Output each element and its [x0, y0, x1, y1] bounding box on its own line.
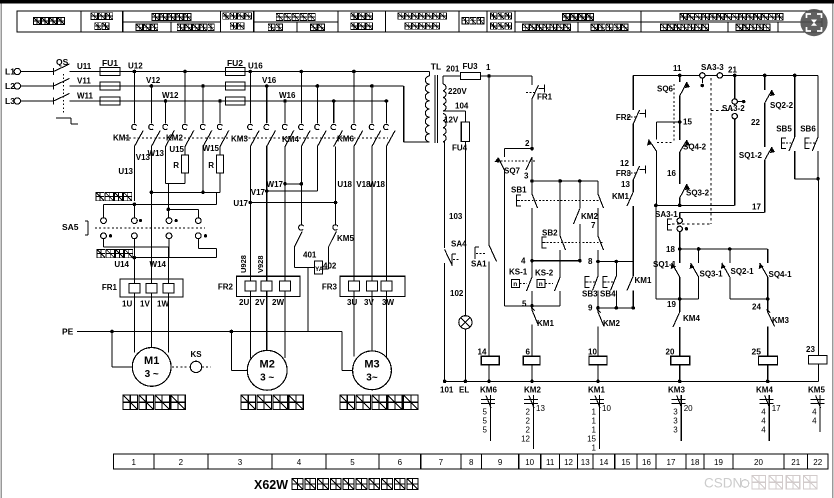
terminal L2 — [14, 83, 20, 89]
svg-text:KM2: KM2 — [524, 386, 541, 395]
wire W13 rail — [165, 147, 167, 184]
svg-text:4: 4 — [521, 257, 526, 266]
svg-text:101: 101 — [440, 386, 454, 395]
contact FR2 (NC overload) — [633, 110, 639, 124]
svg-text:KM4: KM4 — [683, 314, 700, 323]
contact KM4 (NO) — [679, 299, 681, 312]
contactor KM4 pole 1 — [300, 70, 304, 74]
svg-text:U11: U11 — [77, 62, 92, 71]
pushbutton SB6 — [817, 75, 819, 137]
svg-text:8: 8 — [469, 458, 474, 467]
svg-text:19: 19 — [667, 300, 676, 309]
transformer TL core — [434, 75, 436, 143]
svg-text:SQ4-2: SQ4-2 — [683, 143, 707, 152]
svg-text:FR1: FR1 — [537, 93, 553, 102]
svg-text:1V: 1V — [140, 300, 150, 309]
wire L3 to QS — [21, 100, 54, 102]
thermal overload FR3 — [340, 276, 405, 296]
svg-text:SQ7: SQ7 — [504, 167, 521, 176]
svg-text:KM1: KM1 — [635, 276, 652, 285]
wire KM3 rail3 into FR2 — [284, 147, 286, 277]
svg-text:W12: W12 — [162, 91, 179, 100]
svg-text:2: 2 — [526, 417, 531, 426]
svg-text:3 ~: 3 ~ — [145, 369, 159, 380]
PE to M1 ground — [110, 330, 114, 334]
svg-text:22: 22 — [813, 458, 822, 467]
svg-text:10: 10 — [525, 458, 534, 467]
svg-text:19: 19 — [714, 458, 723, 467]
header cell 电源开关 — [34, 18, 65, 25]
node line (17 upper) — [656, 204, 735, 206]
PE to M2 ground — [230, 330, 234, 334]
contactor KM1 pole 3 — [164, 99, 168, 103]
svg-text:M3: M3 — [364, 359, 379, 371]
label 主轴电机 — [123, 395, 185, 410]
contactor KM3 pole 2 — [265, 84, 269, 88]
svg-text:16: 16 — [642, 458, 651, 467]
node 11 — [678, 74, 682, 78]
svg-text:3V: 3V — [364, 298, 374, 307]
header cell 进给电动机 — [276, 14, 315, 21]
svg-text:17: 17 — [752, 203, 761, 212]
header cell 总短路保护 — [91, 13, 113, 20]
node 8 line — [598, 261, 633, 263]
node spindle-reverse line — [134, 257, 216, 259]
contact FR1 (NC overload) — [531, 76, 533, 85]
svg-text:5: 5 — [522, 300, 527, 309]
svg-text:3: 3 — [673, 408, 678, 417]
header cell 冷却泵电动机2 — [490, 13, 511, 19]
svg-text:18: 18 — [666, 245, 675, 254]
label 主轴正转 — [96, 193, 132, 201]
header cell 正反转 — [136, 24, 158, 31]
svg-text:15: 15 — [621, 458, 630, 467]
svg-text:X62W: X62W — [254, 478, 288, 492]
contact table KM6 — [481, 399, 495, 401]
wires FR1 to M1 — [133, 297, 135, 353]
resistor R left bottom wire — [184, 173, 186, 183]
svg-text:KS-2: KS-2 — [535, 269, 554, 278]
transformer TL primary bottom lead — [404, 141, 430, 143]
header cell 左后上 — [736, 24, 770, 30]
left screen edge — [0, 4, 2, 498]
svg-text:2U: 2U — [239, 298, 249, 307]
SA5 c4 bottom wire — [197, 239, 199, 249]
node 19 — [656, 298, 699, 300]
contact FR3 (NC overload) — [633, 166, 639, 180]
svg-text:1: 1 — [592, 444, 597, 453]
limit switch SQ7 — [505, 148, 533, 150]
svg-text:401: 401 — [303, 251, 317, 260]
contact table KM5 — [811, 399, 825, 401]
svg-text:W18: W18 — [369, 180, 386, 189]
contactor KM2 pole 1 — [183, 70, 187, 74]
svg-text:R: R — [173, 161, 179, 170]
svg-text:KM2: KM2 — [603, 319, 620, 328]
header cell 主轴电动机 — [152, 14, 191, 21]
svg-text:102: 102 — [450, 289, 464, 298]
SA5 bottom wires — [103, 239, 105, 247]
svg-text:SB1: SB1 — [511, 186, 527, 195]
contactor KM3 pole 3 — [283, 99, 287, 103]
svg-text:SQ1-1: SQ1-1 — [653, 260, 677, 269]
SA5 top feeds — [103, 204, 105, 217]
limit switch SQ1-1 (NO) — [679, 249, 681, 263]
svg-text:1: 1 — [592, 417, 597, 426]
svg-text:SA3-2: SA3-2 — [722, 104, 745, 113]
svg-text:L2: L2 — [5, 81, 15, 91]
node 4 — [530, 259, 534, 263]
wire KM6 coil rail — [488, 76, 490, 245]
svg-text:U14: U14 — [114, 260, 129, 269]
node 18 — [678, 247, 682, 251]
svg-text:3 ~: 3 ~ — [260, 373, 274, 384]
svg-text:12V: 12V — [444, 116, 459, 125]
svg-text:PE: PE — [62, 327, 74, 337]
svg-text:4: 4 — [761, 426, 766, 435]
svg-text:6: 6 — [398, 458, 403, 467]
svg-text:FU2: FU2 — [227, 58, 243, 68]
wire node3 right rail — [597, 181, 599, 194]
svg-text:17: 17 — [667, 458, 676, 467]
pushbutton SB3 (start) — [585, 277, 590, 288]
pushbutton SB5 — [793, 74, 797, 78]
motor M3 — [353, 351, 392, 390]
wire SQ6 to node 15 — [679, 96, 681, 122]
contact KM2 (NO self-hold) — [579, 181, 581, 208]
resistor R right bottom wire — [219, 173, 221, 192]
label 主轴反转 — [97, 250, 133, 258]
wire W branch to SA5 c3 and c4 — [167, 183, 169, 217]
right screen edge — [832, 4, 834, 498]
svg-text:8: 8 — [588, 257, 593, 266]
frame top border — [0, 0, 834, 4]
svg-text:SQ1-2: SQ1-2 — [739, 151, 763, 160]
contact KM2 (NC interlock) — [597, 308, 599, 312]
svg-text:SQ3-1: SQ3-1 — [700, 270, 724, 279]
svg-text:FR3: FR3 — [322, 283, 338, 292]
svg-text:1: 1 — [132, 458, 137, 467]
svg-text:2: 2 — [179, 458, 184, 467]
contact KM3 (NO) — [767, 299, 769, 312]
svg-text:3~: 3~ — [366, 373, 378, 384]
svg-text:402: 402 — [323, 262, 337, 271]
contact KM1 (NO feed interlock) — [632, 180, 634, 192]
node 1 — [487, 74, 491, 78]
node 15 — [678, 120, 682, 124]
svg-text:201: 201 — [446, 65, 460, 74]
power row V12 — [120, 85, 404, 87]
power row W12 — [120, 100, 388, 102]
wire U13 rail — [133, 147, 135, 202]
svg-text:W15: W15 — [203, 144, 220, 153]
svg-text:KM5: KM5 — [337, 234, 354, 243]
limit switch SQ3-1 (NO) — [698, 249, 700, 263]
svg-text:103: 103 — [449, 212, 463, 221]
svg-text:9: 9 — [588, 304, 593, 313]
wire YA down to PE — [307, 268, 309, 332]
header cell 冷却泵电动机 — [351, 13, 373, 20]
node 9 — [596, 306, 600, 310]
wire 103 rail — [444, 142, 446, 248]
svg-text:SA3-1: SA3-1 — [655, 210, 678, 219]
svg-text:104: 104 — [455, 102, 469, 111]
svg-text:3: 3 — [524, 172, 529, 181]
wire FU3 to node 1 — [481, 75, 490, 77]
svg-text:6: 6 — [526, 348, 531, 357]
contactor KM5 pole 1 — [299, 225, 304, 230]
svg-text:M1: M1 — [144, 355, 159, 367]
header cell 制动及冲动 — [177, 24, 214, 31]
contactor KM5 pole 2 — [333, 225, 338, 230]
fuse FU4 — [461, 122, 469, 142]
limit switch SQ4-1 (NO) — [767, 249, 769, 263]
wire KM6 rail1 into FR3 — [353, 147, 355, 277]
selector SA3-2 — [733, 74, 737, 78]
contactor KM6 pole 2 — [370, 84, 374, 88]
svg-text:220V: 220V — [448, 87, 467, 96]
pushbutton SB4 (start) — [603, 277, 608, 288]
header table outer frame — [17, 11, 822, 32]
motor M1 — [132, 348, 171, 387]
wires FR3 to M3 — [353, 297, 355, 357]
contactor KM4 pole 3 — [332, 99, 336, 103]
limit switch SQ2-1 (NO) — [729, 249, 731, 263]
header cell 工作台进给冲动及圆工作台的控制 — [680, 14, 783, 21]
header table mid row line — [123, 21, 221, 23]
svg-text:21: 21 — [791, 458, 800, 467]
svg-text:SA4: SA4 — [451, 240, 467, 249]
svg-text:KM1: KM1 — [113, 134, 130, 143]
svg-text:4: 4 — [761, 408, 766, 417]
svg-text:KM3: KM3 — [772, 316, 789, 325]
svg-text:KM3: KM3 — [231, 135, 248, 144]
svg-text:FR2: FR2 — [616, 113, 632, 122]
svg-text:FU1: FU1 — [102, 58, 118, 68]
svg-text:L3: L3 — [5, 96, 15, 106]
node 2 — [530, 147, 534, 151]
contactor KM1 pole 2 — [150, 84, 154, 88]
svg-text:14: 14 — [599, 458, 608, 467]
wire 104 — [443, 110, 466, 112]
svg-text:KM1: KM1 — [537, 319, 554, 328]
svg-text:U928: U928 — [239, 255, 248, 273]
svg-text:16: 16 — [667, 169, 676, 178]
contact table KM3 — [672, 399, 686, 401]
svg-text:FR1: FR1 — [102, 283, 118, 292]
svg-text:2: 2 — [526, 408, 531, 417]
wire FR1 to node 2 — [531, 99, 533, 149]
svg-text:SQ3-2: SQ3-2 — [686, 189, 710, 198]
contact table KM2 — [524, 399, 538, 401]
wires FR2 to M2 — [249, 297, 251, 359]
svg-text:2: 2 — [526, 426, 531, 435]
svg-text:9: 9 — [498, 458, 503, 467]
svg-text:14: 14 — [478, 348, 487, 357]
svg-text:CSDN: CSDN — [704, 476, 742, 491]
svg-text:11: 11 — [546, 458, 555, 467]
column number strip — [114, 454, 828, 469]
svg-text:21: 21 — [728, 66, 737, 75]
node 5 line — [505, 305, 561, 307]
wire W14 drop to FR1 — [167, 247, 169, 279]
wire QS to FU1 row1 — [70, 71, 101, 73]
svg-text:5: 5 — [483, 426, 488, 435]
changeover blade at node 15 — [656, 121, 679, 123]
svg-text:n: n — [539, 281, 543, 288]
wire KM2 mid rail — [202, 147, 204, 193]
contact KM1 (NC brake interlock) — [531, 306, 533, 310]
svg-text:SQ6: SQ6 — [657, 85, 674, 94]
limit switch SQ2-2 (NC) — [763, 74, 767, 78]
SA5 position dots — [139, 219, 142, 222]
svg-text:KM1: KM1 — [588, 386, 605, 395]
svg-text:KM1: KM1 — [612, 192, 629, 201]
header cell 控制照明电源及短路保护 — [398, 13, 446, 19]
svg-text:20: 20 — [754, 458, 763, 467]
svg-text:SQ2-2: SQ2-2 — [770, 101, 794, 110]
transformer TL secondary 12V winding — [443, 114, 446, 142]
wire KM6 rail3 into FR3 — [385, 147, 387, 277]
svg-text:KM6: KM6 — [337, 135, 354, 144]
wire 102 rail — [444, 263, 446, 381]
svg-text:20: 20 — [684, 404, 693, 413]
resistor R (right) — [219, 147, 221, 156]
svg-text:SB6: SB6 — [800, 125, 816, 134]
svg-text:15: 15 — [683, 118, 692, 127]
contactor KM2 pole 2 — [201, 84, 205, 88]
node 5 — [530, 304, 534, 308]
svg-text:V16: V16 — [262, 76, 277, 85]
svg-text:5: 5 — [483, 408, 488, 417]
wire SQ7 to node 3 — [531, 157, 533, 181]
svg-text:U18: U18 — [337, 180, 352, 189]
svg-text:SB5: SB5 — [776, 125, 792, 134]
wire L2 to QS — [21, 85, 54, 87]
header cell 进给短路保护 — [223, 13, 252, 19]
thermal overload FR1 — [120, 279, 183, 297]
node 4 line — [532, 260, 580, 262]
svg-text:SA5: SA5 — [62, 222, 79, 232]
contactor KM2 pole 3 — [218, 99, 222, 103]
svg-text:18: 18 — [691, 458, 700, 467]
bottom control rail — [445, 380, 819, 382]
svg-text:U12: U12 — [128, 62, 143, 71]
speed relay KS — [172, 366, 190, 368]
svg-text:25: 25 — [752, 347, 762, 357]
wire QS to FU1 row3 — [70, 100, 101, 102]
node 8 — [596, 260, 600, 264]
svg-text:3: 3 — [673, 417, 678, 426]
header cell 冲动右前下 — [661, 24, 709, 30]
svg-text:R: R — [208, 161, 214, 170]
svg-text:11: 11 — [673, 64, 682, 73]
wire KM4 rail1 to KM5 pole1 — [300, 147, 302, 224]
feed rail top corner — [632, 75, 634, 110]
svg-text:SB2: SB2 — [542, 229, 558, 238]
svg-text:SB3: SB3 — [582, 290, 598, 299]
power row U12 — [120, 71, 430, 73]
header cell 反转 — [310, 24, 324, 31]
svg-text:SQ4-1: SQ4-1 — [769, 270, 793, 279]
label 进给电机 — [241, 395, 303, 410]
limit switch SQ3-2 (NC) — [680, 184, 687, 198]
node 3 — [530, 179, 534, 183]
svg-text:17: 17 — [772, 404, 781, 413]
wire 201 secondary top to FU3 — [442, 76, 444, 84]
svg-text:3: 3 — [673, 426, 678, 435]
header cell 正转 — [268, 24, 282, 31]
terminal L1 — [14, 68, 20, 74]
svg-text:KM2: KM2 — [581, 212, 598, 221]
terminal L3 — [14, 98, 20, 104]
wire KM4 rail3 to KM5 pole2 — [335, 147, 337, 224]
svg-text:V17: V17 — [251, 188, 266, 197]
svg-text:V12: V12 — [146, 76, 161, 85]
thermal overload FR2 — [237, 276, 300, 296]
svg-text:2V: 2V — [255, 298, 265, 307]
limit switch SQ6 (NC) — [679, 75, 681, 82]
svg-text:FR3: FR3 — [616, 169, 632, 178]
svg-text:3U: 3U — [347, 298, 357, 307]
node 3 line — [532, 180, 598, 182]
svg-text:1: 1 — [592, 426, 597, 435]
electromagnet YA — [315, 261, 323, 274]
svg-text:7: 7 — [439, 458, 444, 467]
node 24 — [730, 298, 768, 300]
svg-text:23: 23 — [806, 345, 815, 354]
transformer TL secondary 220V winding — [443, 84, 446, 111]
contactor KM6 pole 1 — [352, 70, 356, 74]
resistor R (left) — [184, 147, 186, 156]
svg-text:KS-1: KS-1 — [509, 268, 528, 277]
node 18 line — [680, 248, 768, 250]
svg-text:1U: 1U — [122, 300, 132, 309]
contactor KM1 pole 1 — [133, 70, 137, 74]
svg-text:EL: EL — [459, 386, 469, 395]
svg-text:10: 10 — [602, 404, 611, 413]
svg-text:12: 12 — [564, 458, 573, 467]
svg-text:KM5: KM5 — [808, 386, 825, 395]
svg-text:U15: U15 — [169, 145, 184, 154]
SA5 c3 bottom wire — [168, 239, 170, 258]
svg-text:13: 13 — [621, 180, 630, 189]
svg-text:2W: 2W — [272, 298, 284, 307]
svg-text:V11: V11 — [77, 77, 91, 86]
coil KM5 (23) — [818, 179, 820, 356]
wire L1 to QS — [21, 71, 54, 73]
svg-text:3: 3 — [238, 458, 243, 467]
contact table KM1 — [590, 399, 604, 401]
svg-text:W14: W14 — [150, 260, 167, 269]
node line 17 — [680, 211, 765, 213]
wire forward line to R branch — [216, 192, 218, 204]
wire left drop to node 19 — [655, 205, 657, 299]
limit switch SQ1-2 (NC) — [765, 147, 772, 160]
svg-text:1: 1 — [486, 63, 491, 72]
label 冷却泵电机 — [340, 395, 418, 410]
wire node1 to FR1 contact — [489, 75, 532, 77]
svg-text:4: 4 — [761, 417, 766, 426]
contactor KM6 pole 3 — [385, 99, 389, 103]
wire KM3 rail1 into FR2 — [249, 147, 251, 277]
svg-text:W16: W16 — [279, 91, 296, 100]
header table column lines — [80, 11, 82, 32]
svg-text:SQ2-1: SQ2-1 — [731, 267, 755, 276]
svg-text:W11: W11 — [77, 92, 94, 101]
svg-text:1W: 1W — [157, 300, 169, 309]
svg-text:FR2: FR2 — [218, 283, 234, 292]
